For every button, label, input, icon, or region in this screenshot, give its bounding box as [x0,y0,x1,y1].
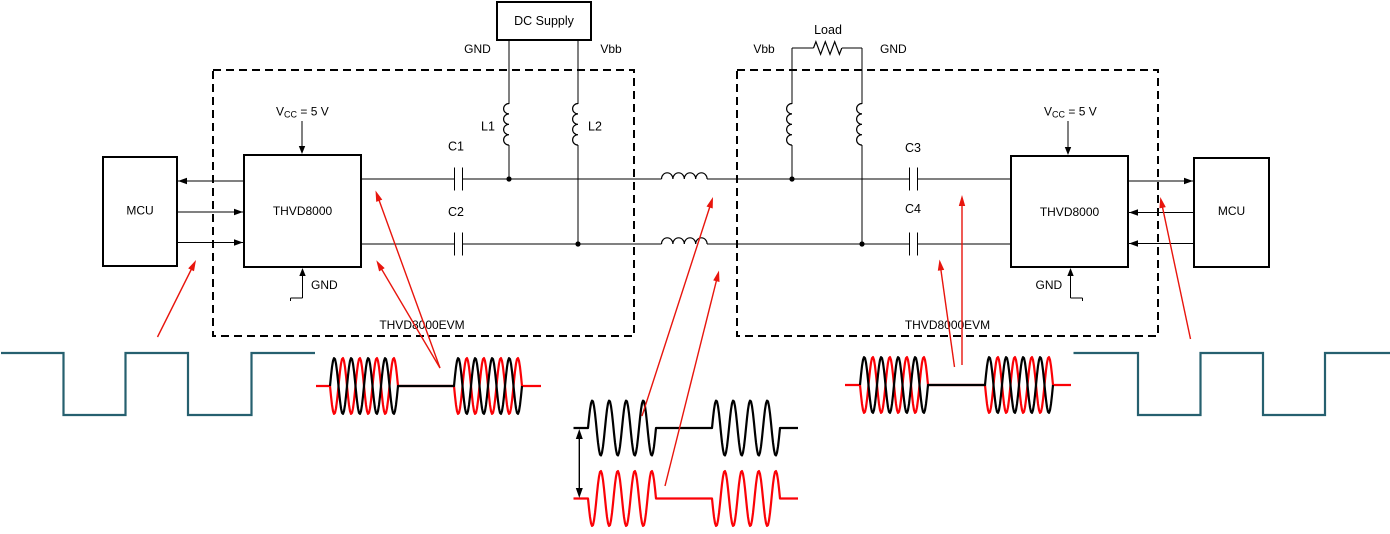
svg-text:THVD8000: THVD8000 [273,204,333,218]
wire THVD8000 to C2 (bottom line) [361,243,455,245]
inductor L2 [573,104,578,146]
wire THVD8000 to C1 (top line) [361,178,455,180]
capacitor C3 [909,168,911,191]
svg-text:C4: C4 [905,202,921,216]
THVD8000 box (right) [1011,156,1128,267]
svg-text:VCC = 5 V: VCC = 5 V [1044,105,1097,120]
bus waveform red (center) [574,471,799,526]
GND symbol (right THVD8000) [1070,274,1072,298]
inductor Vbb leg (right) [787,104,792,146]
square wave (left MCU signal) [1,353,315,415]
svg-text:DC Supply: DC Supply [514,14,574,28]
inductor L1 [504,104,509,146]
GND symbol (left THVD8000) [302,274,304,298]
wire C4 to THVD8000 (right) [918,243,1012,245]
capacitor C1 [454,168,456,191]
resistor Load [792,47,814,49]
MCU box (right) [1194,158,1269,267]
modulated burst waveform red (right EVM) [845,357,1071,413]
red arrow (left burst to THVD8000 bottom line) [381,268,440,368]
wire MCU-THVD8000 top (left, arrow into MCU) [178,180,244,182]
svg-text:GND: GND [464,42,491,56]
line inductor (bottom, bus) [662,238,708,244]
modulated burst waveform black (right EVM) [860,357,1053,413]
junction node GND leg/bottom line [859,241,864,246]
svg-text:L1: L1 [481,120,495,134]
wire MCU-THVD8000 bottom (left, arrow into THVD8000) [177,242,243,244]
svg-text:GND: GND [1036,278,1063,292]
bus waveform black (center) [574,401,799,456]
junction node Vbb leg/top line [789,176,794,181]
square wave (right MCU signal) [1074,353,1390,415]
THVD8000EVM dashed enclosure (left) [213,70,634,336]
svg-text:MCU: MCU [126,204,153,218]
svg-text:GND: GND [880,42,907,56]
wire DC supply GND down [508,40,510,104]
svg-text:Vbb: Vbb [600,42,622,56]
junction node L1/top line [506,176,511,181]
wire top line inductor to C3 [707,178,910,180]
Vcc arrow (left) [301,121,303,147]
svg-text:C3: C3 [905,141,921,155]
modulated burst waveform red (left EVM) [316,358,541,414]
svg-text:C1: C1 [448,140,464,154]
DC Supply box [497,2,591,40]
wire MCU-THVD8000 mid (left, arrow into THVD8000) [177,211,243,213]
svg-text:MCU: MCU [1218,204,1245,218]
wire Vbb leg (right) [791,48,793,104]
red arrow (right burst to C4 line) [941,268,955,367]
wire C3 to THVD8000 (right) [918,178,1012,180]
THVD8000 box (left) [244,155,361,267]
capacitor C2 [454,233,456,256]
wire bottom line inductor to C4 [707,243,910,245]
modulated burst waveform black (left EVM) [330,358,522,414]
wire THVD8000-MCU mid (right, arrow into THVD8000) [1129,212,1194,214]
capacitor C4 [909,233,911,256]
wire C1 to line inductor (top) [463,178,662,180]
wire C2 to line inductor (bottom) [463,243,662,245]
red arrow (center waves to bus bottom line) [665,279,717,486]
wire DC supply Vbb down [577,40,579,104]
svg-text:GND: GND [311,278,338,292]
svg-text:VCC = 5 V: VCC = 5 V [276,105,329,120]
inductor GND leg (right) [857,104,862,146]
offset measure double arrow [578,432,580,495]
svg-text:Load: Load [814,23,842,37]
svg-text:C2: C2 [448,205,464,219]
svg-text:L2: L2 [588,120,602,134]
MCU box (left) [103,157,177,266]
line inductor (top, bus) [662,173,708,179]
svg-text:THVD8000: THVD8000 [1040,205,1100,219]
wire THVD8000-MCU top (right, arrow into MCU) [1128,180,1193,182]
red arrow (center waves to bus top line) [642,206,710,416]
Vcc arrow (right) [1067,121,1069,148]
red arrow (left MCU waveform to wires) [158,268,193,337]
red arrow (left burst to THVD8000 top line) [379,199,440,368]
wire GND leg (right) [861,48,863,104]
red arrow (right burst to C3 line) [961,204,963,365]
svg-text:Vbb: Vbb [753,42,775,56]
red arrow (right waveform to MCU wires) [1162,206,1190,339]
junction node L2/bottom line [575,241,580,246]
wire THVD8000-MCU bottom (right, arrow into THVD8000) [1129,243,1194,245]
THVD8000EVM dashed enclosure (right) [737,70,1158,336]
